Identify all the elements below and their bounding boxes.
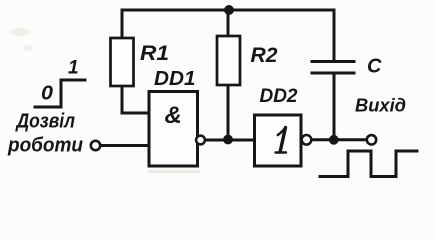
svg-text:Вихід: Вихід [355, 95, 406, 116]
svg-text:DD2: DD2 [260, 86, 298, 107]
svg-text:&: & [165, 102, 182, 129]
svg-text:1: 1 [68, 58, 79, 79]
svg-text:C: C [367, 56, 382, 78]
svg-text:DD1: DD1 [154, 68, 196, 90]
svg-text:R2: R2 [251, 44, 278, 67]
svg-text:роботи: роботи [7, 134, 83, 157]
svg-text:0: 0 [41, 83, 53, 105]
svg-text:Дозвіл: Дозвіл [15, 110, 75, 133]
svg-text:R1: R1 [140, 42, 169, 65]
